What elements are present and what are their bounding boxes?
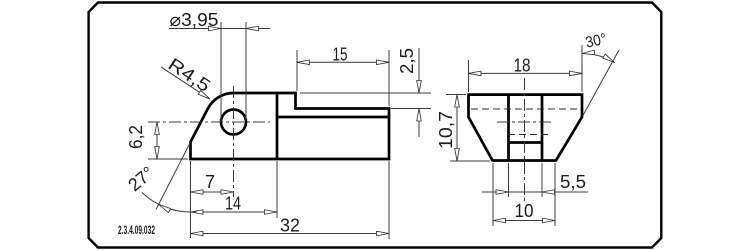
- svg-text:R4,5: R4,5: [165, 54, 214, 96]
- main outline: [191, 93, 390, 159]
- svg-text:10: 10: [515, 201, 534, 221]
- svg-text:2,5: 2,5: [397, 48, 417, 74]
- dimension 15 extension lines: [296, 50, 298, 91]
- svg-text:7: 7: [205, 172, 215, 192]
- end view outline (trapezoid): [469, 95, 583, 161]
- dimension 5,5 line with flipped arrows: [482, 191, 588, 193]
- dimension 32 line: [191, 233, 390, 235]
- dimension 10,7 extension lines: [446, 94, 466, 96]
- slot shelf: [509, 141, 543, 144]
- svg-text:18: 18: [514, 56, 531, 76]
- dimension dia 3,95 extension lines: [220, 22, 222, 121]
- dimension 2,5 line with flipped arrows: [418, 48, 420, 93]
- horizontal centerline: [497, 121, 554, 123]
- slot left wall: [507, 95, 510, 161]
- svg-text:⌀3,95: ⌀3,95: [170, 10, 219, 30]
- left edge extension line down: [190, 161, 192, 238]
- hole horizontal centerline: [148, 121, 270, 123]
- hole circle: [221, 110, 246, 135]
- dimension 5,5 extension lines: [508, 163, 510, 197]
- svg-text:10,7: 10,7: [436, 111, 456, 149]
- hidden line lower: [508, 134, 548, 136]
- dimension 10 extension lines: [492, 163, 494, 226]
- dimension 18 extension lines: [468, 60, 470, 92]
- horizontal edge (slot top): [277, 116, 389, 119]
- 30deg slope extension line: [583, 50, 619, 115]
- hole vertical centerline: [233, 86, 235, 197]
- svg-text:32: 32: [280, 216, 300, 236]
- dimension 6,2 extension line (bottom): [148, 158, 188, 160]
- svg-text:15: 15: [333, 45, 348, 65]
- 27deg angular dimension arc: [142, 192, 197, 212]
- dimension 18 line: [469, 72, 583, 74]
- R4,5 leader line with arrow: [161, 67, 210, 99]
- dimension 10,7 line: [456, 95, 458, 162]
- svg-text:6,2: 6,2: [126, 125, 146, 149]
- right edge extension line down: [388, 161, 390, 239]
- dimension 7 line: [191, 191, 234, 193]
- dimension dia 3,95 line: [169, 28, 270, 30]
- svg-text:30°: 30°: [584, 31, 608, 52]
- dimension 15 line: [297, 61, 389, 63]
- slot right wall: [541, 95, 544, 161]
- svg-text:5,5: 5,5: [560, 172, 586, 192]
- 27deg slope extension line: [156, 142, 191, 210]
- dimension 10 line: [493, 220, 555, 222]
- dimension 2,5 extension lines: [300, 92, 431, 94]
- dimension 6,2 line: [156, 122, 158, 159]
- 30deg angular dimension arc: [582, 54, 615, 63]
- dimension 14 line: [191, 211, 278, 213]
- border frame (chamfered): [89, 3, 662, 248]
- svg-text:27°: 27°: [124, 163, 158, 196]
- svg-text:14: 14: [225, 194, 241, 214]
- divider extension line down: [276, 161, 278, 218]
- vertical centerline: [524, 78, 526, 202]
- svg-text:2.3.4.09.032: 2.3.4.09.032: [118, 223, 155, 236]
- hidden line upper: [471, 108, 577, 110]
- vertical divider edge at 14mm: [276, 93, 279, 159]
